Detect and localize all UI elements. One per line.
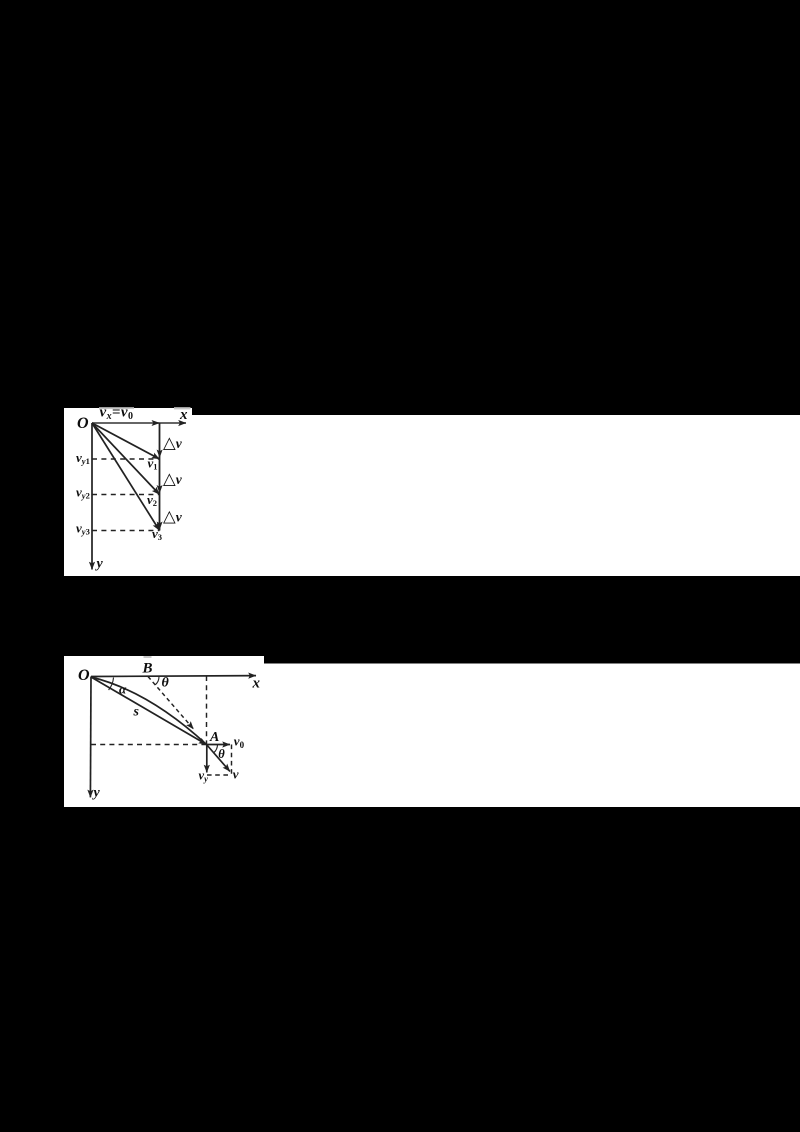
- y axis label (fig2): [92, 785, 101, 800]
- angle arc theta at B: [155, 677, 159, 685]
- label v1: [148, 456, 158, 472]
- x axis label (fig1): [179, 407, 188, 423]
- label delta-v 3: [163, 507, 183, 526]
- label vy3: [76, 521, 90, 537]
- dashed rectangle right edge (v0 tip to v tip): [231, 745, 233, 776]
- svg-text:θ: θ: [218, 747, 225, 761]
- delta-v arrowhead 3 (down): [157, 522, 163, 531]
- angle arc theta at A: [214, 745, 218, 753]
- label alpha: [119, 682, 127, 697]
- origin label O (fig2): [78, 667, 90, 684]
- figure 1 white panel: [64, 408, 800, 576]
- x axis label (fig2): [252, 676, 261, 692]
- delta-v arrowhead 1 (down): [157, 450, 163, 459]
- angle arc alpha at O: [109, 678, 114, 690]
- label theta at A: [218, 747, 225, 761]
- tangent dashed line B to A with arrowhead: [148, 677, 194, 730]
- x axis (fig2): [91, 675, 256, 678]
- vector v2: [92, 423, 160, 495]
- point A label: [209, 730, 219, 745]
- vector v1: [92, 423, 160, 459]
- label v3: [152, 526, 162, 542]
- origin label O (fig1): [77, 415, 89, 432]
- vertical dashed line from x axis to A: [206, 676, 208, 745]
- svg-text:s: s: [133, 705, 140, 720]
- dashed rectangle bottom edge (vy tip to v tip): [207, 774, 232, 776]
- svg-text:△v: △v: [163, 507, 183, 526]
- svg-text:O: O: [77, 415, 89, 432]
- svg-text:α: α: [119, 682, 127, 697]
- grey smudge above x label: [174, 407, 191, 409]
- grey smudge above vx=v0 label: [99, 407, 134, 409]
- chord displacement vector s (O to A): [91, 677, 207, 745]
- label vy2: [76, 485, 90, 501]
- label vy1: [76, 450, 90, 466]
- label delta-v 1: [163, 433, 183, 452]
- label s: [133, 705, 140, 720]
- svg-text:△v: △v: [163, 469, 183, 488]
- vector v3: [92, 423, 160, 531]
- label theta at B: [162, 676, 170, 691]
- figure 2 white panel: [64, 656, 800, 807]
- dashed level line vy1: [92, 458, 160, 460]
- svg-text:θ: θ: [162, 676, 170, 691]
- svg-text:y: y: [92, 785, 101, 800]
- velocity v vector at A: [207, 745, 231, 772]
- svg-text:A: A: [209, 730, 219, 745]
- velocity v0 vector at A: [207, 744, 231, 746]
- svg-text:y: y: [95, 557, 104, 572]
- grey smudge above B label: [144, 656, 152, 658]
- svg-text:v: v: [233, 767, 239, 782]
- label vx = v0: [100, 405, 134, 423]
- vertical line through v tips (fig1): [159, 423, 161, 531]
- point B label: [142, 661, 153, 677]
- y axis (fig2): [89, 677, 92, 798]
- svg-text:x: x: [179, 407, 188, 423]
- x axis (fig1): [92, 422, 186, 424]
- horizontal dashed line from y axis to A: [91, 744, 207, 746]
- label vy: [199, 769, 209, 784]
- svg-text:x: x: [252, 676, 261, 692]
- delta-v arrowhead 2 (down): [157, 485, 163, 494]
- label delta-v 2: [163, 469, 183, 488]
- label v: [233, 767, 239, 782]
- velocity vy vector at A: [206, 745, 208, 773]
- y axis label (fig1): [95, 557, 104, 572]
- svg-text:△v: △v: [163, 433, 183, 452]
- dashed level line vy2: [92, 494, 160, 496]
- label v2: [147, 492, 157, 508]
- label v0: [234, 734, 245, 751]
- y axis (fig1): [91, 423, 93, 570]
- dashed level line vy3: [92, 530, 160, 532]
- svg-text:B: B: [142, 661, 153, 677]
- trajectory curve O to A: [91, 677, 207, 745]
- vx vector arrowhead on axis: [152, 420, 161, 426]
- svg-text:O: O: [78, 667, 90, 684]
